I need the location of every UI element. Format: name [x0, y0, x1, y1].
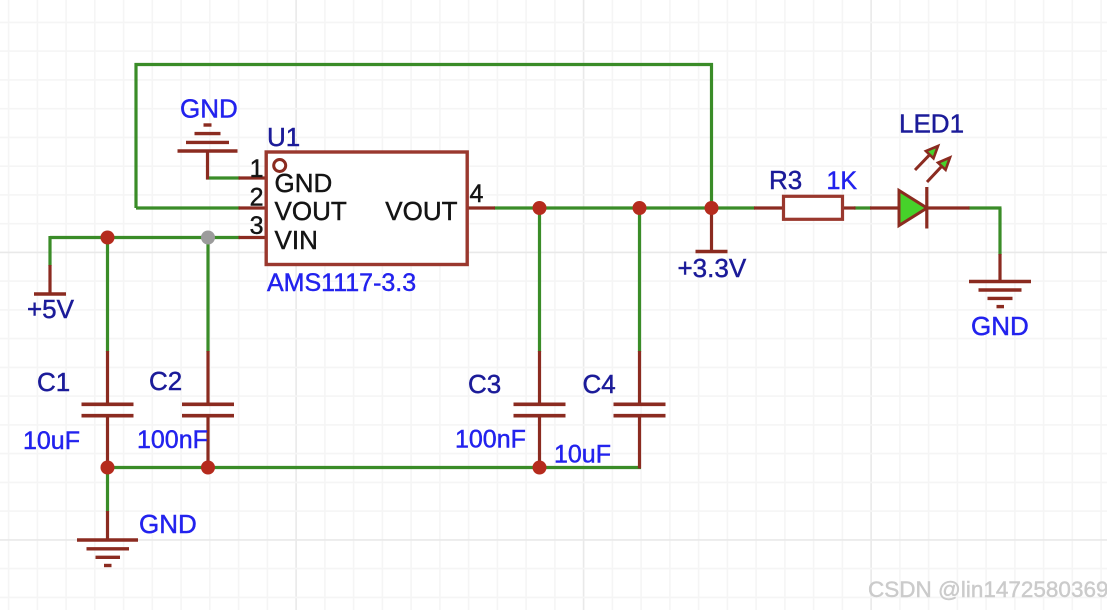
svg-text:U1: U1 — [267, 122, 300, 152]
svg-text:VIN: VIN — [275, 225, 318, 255]
svg-text:GND: GND — [971, 311, 1029, 341]
svg-text:VOUT: VOUT — [385, 196, 457, 226]
svg-text:C4: C4 — [583, 369, 616, 399]
svg-text:100nF: 100nF — [137, 426, 208, 454]
svg-text:C1: C1 — [37, 367, 70, 397]
svg-text:2: 2 — [250, 184, 264, 212]
svg-text:VOUT: VOUT — [275, 196, 347, 226]
svg-text:AMS1117-3.3: AMS1117-3.3 — [267, 269, 416, 297]
svg-text:CSDN @lin1472580369: CSDN @lin1472580369 — [868, 577, 1107, 602]
svg-text:GND: GND — [180, 94, 238, 124]
svg-text:+5V: +5V — [27, 294, 75, 324]
svg-text:C2: C2 — [149, 366, 182, 396]
svg-text:R3: R3 — [769, 165, 802, 195]
svg-text:GND: GND — [139, 509, 197, 539]
svg-text:4: 4 — [470, 180, 484, 208]
svg-text:+3.3V: +3.3V — [678, 253, 747, 283]
svg-text:100nF: 100nF — [455, 426, 526, 454]
svg-text:3: 3 — [250, 212, 264, 240]
svg-text:C3: C3 — [468, 369, 501, 399]
svg-text:10uF: 10uF — [554, 441, 611, 469]
svg-text:GND: GND — [275, 168, 333, 198]
svg-text:1: 1 — [250, 155, 264, 183]
svg-text:10uF: 10uF — [23, 427, 80, 455]
svg-text:LED1: LED1 — [899, 109, 964, 139]
svg-text:1K: 1K — [827, 167, 858, 195]
